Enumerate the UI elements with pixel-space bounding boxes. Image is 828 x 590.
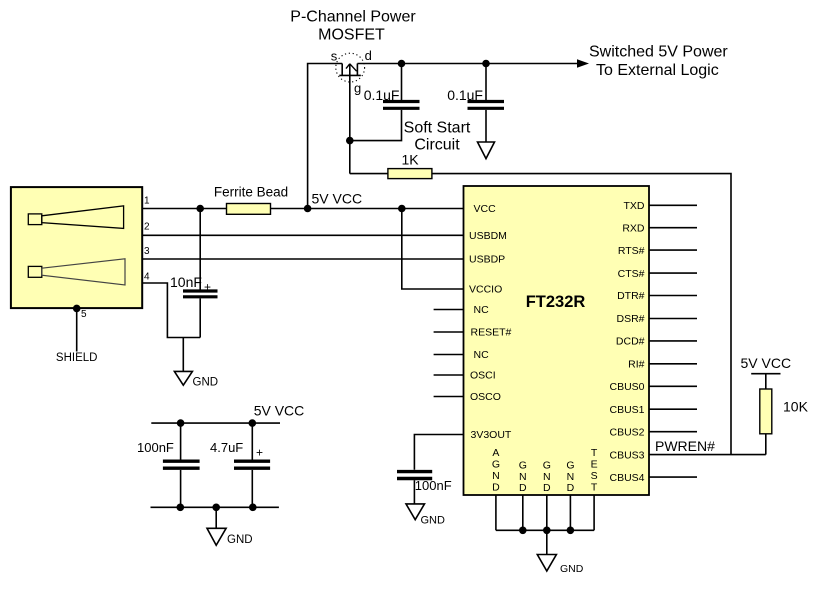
transistor Q1 arrow [350,64,357,71]
svg-text:+: + [256,446,263,460]
wire 100nF cap bottom [180,470,182,507]
svg-text:CBUS2: CBUS2 [609,426,644,438]
wire stub RTS# [649,249,697,251]
svg-text:4.7uF: 4.7uF [210,440,243,455]
svg-text:OSCO: OSCO [470,391,501,403]
svg-text:GND: GND [421,515,446,527]
capacitor C5 4.7uF plates [234,460,270,463]
node 0.1uF no1 junction [398,60,406,68]
svg-text:RXD: RXD [622,222,645,234]
wire gnd bus stem [546,530,548,554]
USB connector bottom contact horn [42,259,125,285]
wire stub DTR# [649,295,697,297]
svg-text:10nF: 10nF [170,274,202,290]
USB connector bottom contact square [28,266,42,277]
node caps bottom left [177,504,185,512]
svg-text:USBDP: USBDP [469,254,505,266]
arrow to external logic [577,59,589,67]
svg-text:E: E [591,458,598,470]
capacitor C10nF plates [183,289,218,292]
node gate / soft-start junction [346,137,354,145]
wire source vertical to MOSFET [308,64,343,209]
svg-text:N: N [519,471,527,483]
svg-text:5V VCC: 5V VCC [312,191,363,207]
svg-text:0.1uF: 0.1uF [364,87,400,103]
wire 10K to CBUS3 [765,434,767,455]
wire stub DSR# [649,318,697,320]
wire stub RESET# [434,331,464,333]
ground triangle 10nF [174,371,192,385]
wire 4.7uF cap top [251,423,253,459]
svg-text:T: T [591,481,598,493]
node caps bottom mid [212,504,220,512]
svg-text:P-Channel Power: P-Channel Power [290,9,416,26]
wire caps gnd stem [215,507,217,528]
svg-text:G: G [492,458,500,470]
resistor R2 10K [760,389,772,434]
svg-text:Circuit: Circuit [414,137,460,154]
capacitor C3 100nF plates [397,470,432,473]
svg-text:1K: 1K [401,152,419,168]
wire CBUS3 PWREN# [649,454,766,456]
wire drain to arrow [357,63,578,65]
transistor Q1 P-MOSFET circle [336,53,365,82]
svg-text:+: + [204,280,211,294]
svg-text:TXD: TXD [624,200,645,212]
svg-text:RESET#: RESET# [471,327,512,339]
wire gate vertical [349,64,351,174]
svg-text:100nF: 100nF [137,440,174,455]
node 0.1uF no2 junction [482,60,490,68]
wire stub CTS# [649,272,697,274]
node gnd bus junction 2 [543,527,551,535]
wire GND2 down [522,495,524,530]
svg-text:S: S [591,470,598,482]
svg-text:OSCI: OSCI [470,370,496,382]
svg-text:2: 2 [144,222,150,233]
wire stub CBUS1 [649,408,697,410]
wire 10nF top [199,209,201,290]
USB connector top contact horn [42,206,124,229]
wire stub OSCO [434,396,464,398]
wire stub RI# [649,363,697,365]
svg-text:VCC: VCC [474,203,497,215]
svg-text:CTS#: CTS# [618,268,645,280]
svg-text:5V VCC: 5V VCC [741,355,792,371]
wire caps top rail [151,422,280,424]
node VCCIO tap junction [398,205,406,213]
svg-text:10K: 10K [783,399,809,415]
svg-text:Switched 5V Power: Switched 5V Power [589,44,728,61]
svg-text:RTS#: RTS# [618,245,645,257]
wire 4.7uF cap bottom [251,470,253,507]
svg-text:T: T [591,447,598,459]
svg-text:A: A [492,447,499,459]
svg-text:GND: GND [560,563,584,575]
node pin5 junction [73,305,81,313]
svg-text:100nF: 100nF [415,478,452,493]
node gnd bus junction 1 [519,527,527,535]
wire AGND down [495,495,497,530]
svg-text:To External Logic: To External Logic [596,62,719,79]
wire GND3 down [546,495,548,530]
wire 1K to CBUS3 [432,174,731,455]
svg-text:CBUS0: CBUS0 [609,381,644,393]
node caps bottom right [249,504,257,512]
svg-text:N: N [492,470,500,482]
wire 0.1uF no2 bottom [485,110,487,142]
wire TEST down [593,495,595,530]
svg-text:D: D [519,482,527,494]
svg-text:GND: GND [193,377,219,389]
wire caps bottom rail [151,506,279,508]
USB connector top contact square [28,214,42,225]
svg-text:5V VCC: 5V VCC [254,403,305,419]
svg-text:g: g [354,81,361,96]
wire gnd stem 10nF [182,338,184,372]
ground triangle chip [537,555,556,572]
transistor Q1 source bar [341,64,343,76]
svg-text:USBDM: USBDM [469,230,507,242]
wire 10nF bottom [199,298,201,337]
node pin1 / 10nF junction [196,205,204,213]
svg-text:SHIELD: SHIELD [56,352,98,364]
wire 0.1uF no1 top [401,64,403,101]
svg-text:CBUS1: CBUS1 [609,404,644,416]
svg-text:D: D [543,482,551,494]
transistor Q1 channel bar [339,74,361,76]
svg-text:D: D [567,482,575,494]
svg-text:Soft Start: Soft Start [404,120,471,137]
svg-text:DSR#: DSR# [616,313,644,325]
svg-text:N: N [543,471,551,483]
wire stub RXD [649,227,697,229]
wire GND4 down [569,495,571,530]
svg-text:PWREN#: PWREN# [655,438,715,454]
svg-text:0.1uF: 0.1uF [447,87,483,103]
wire VCCIO tap [402,209,464,290]
wire VBUS pin1 to chip VCC [142,208,463,210]
wire stub OSCI [434,374,464,376]
wire stub NC no1 [434,309,464,311]
ground triangle 0.1uF no2 [478,142,495,159]
svg-text:NC: NC [474,304,490,316]
transistor Q1 drain bar [356,64,358,76]
USB connector J1 body [11,187,142,308]
svg-text:Ferrite Bead: Ferrite Bead [214,185,288,200]
wire gate to 1K resistor [350,173,388,175]
ground triangle caps [207,528,226,545]
svg-text:DCD#: DCD# [616,336,645,348]
node caps top right [249,419,257,427]
svg-text:CBUS3: CBUS3 [609,449,644,461]
svg-text:RI#: RI# [628,359,645,371]
wire rail to 10K [765,374,767,389]
capacitor C4 100nF plates [163,460,200,463]
wire stub TXD [649,204,697,206]
wire stub DCD# [649,340,697,342]
wire USBDP pin3 to chip [142,258,463,260]
svg-text:G: G [519,459,527,471]
svg-text:FT232R: FT232R [526,293,586,311]
wire stub CBUS2 [649,431,697,433]
wire 0.1uF no1 bottom to gate [350,110,402,141]
ferrite bead FB1 [227,204,271,215]
wire stub NC no2 [434,354,464,356]
resistor R1 1K [388,169,432,179]
svg-text:GND: GND [227,534,253,546]
wire 100nF cap top [180,423,182,459]
wire pin4 ground path [142,283,200,338]
svg-text:3: 3 [144,246,150,257]
ground triangle 100nF chip [406,504,425,520]
IC U1 FT232R body [464,186,650,495]
svg-text:d: d [365,48,372,63]
wire 100nF bottom stem [413,480,415,504]
svg-text:N: N [567,471,575,483]
wire stub CBUS4 [649,476,697,478]
svg-text:G: G [543,459,551,471]
svg-text:s: s [331,49,338,64]
capacitor C2 0.1uF plates [468,100,505,103]
svg-text:G: G [566,459,574,471]
svg-text:DTR#: DTR# [617,290,645,302]
svg-text:VCCIO: VCCIO [469,284,502,296]
node gnd bus junction 3 [567,527,575,535]
wire shield stub [76,308,78,351]
capacitor C1 0.1uF plates [383,100,420,103]
svg-text:1: 1 [144,196,150,207]
wire 3V3OUT to 100nF [414,435,463,470]
wire stub CBUS0 [649,385,697,387]
node 5V VCC junction [304,205,312,213]
wire USBDM pin2 to chip [142,234,463,236]
svg-text:MOSFET: MOSFET [318,27,385,44]
power rail bar 10K [751,373,780,375]
node caps top left [177,419,185,427]
wire 0.1uF no2 top [485,64,487,101]
svg-text:CBUS4: CBUS4 [609,472,644,484]
svg-text:D: D [492,481,500,493]
svg-text:5: 5 [81,309,87,320]
wire ground bus [496,529,594,531]
svg-text:NC: NC [474,349,490,361]
svg-text:3V3OUT: 3V3OUT [471,429,512,441]
svg-text:4: 4 [144,272,150,283]
